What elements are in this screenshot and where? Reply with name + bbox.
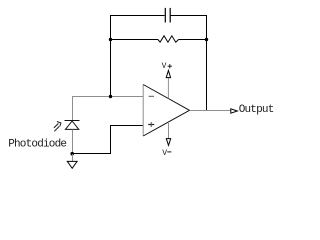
wire: resistor branch right lead (179, 39, 207, 41)
wire: photodiode anode drop (gray) (72, 129, 74, 153)
photodiode D1 cathode bar (65, 120, 80, 122)
capacitor C1 right plate (169, 8, 171, 23)
junction dot: right feedback node (205, 38, 208, 41)
photodiode light arrow 2 (54, 126, 59, 131)
wire: left vertical feedback (110, 40, 112, 97)
capacitor C1 left plate (164, 8, 166, 23)
wire: top capacitor branch left segment (111, 16, 165, 40)
op-amp U1 top slant edge (143, 85, 189, 111)
wire: bottom run from anode to non-inverting branch (72, 126, 143, 154)
V+ arrow (166, 71, 170, 78)
wire: resistor branch left lead (111, 39, 158, 41)
op-amp U1 left edge (gray) (142, 85, 144, 137)
op-amp minus sign (149, 95, 154, 97)
svg-text:V: V (162, 62, 167, 71)
op-amp U1 bottom slant edge (143, 110, 189, 136)
svg-text:Output: Output (239, 104, 274, 116)
photodiode light arrow 1 (54, 122, 61, 128)
svg-text:Photodiode: Photodiode (8, 138, 66, 150)
junction dot: left feedback node (109, 38, 112, 41)
junction dot: inverting node (109, 95, 112, 98)
wire: ground stub (gray) (72, 154, 74, 162)
junction dot: anode/ground node (70, 152, 74, 156)
V- arrow (166, 139, 170, 146)
V- supply lead (gray) (168, 122, 170, 139)
wire: right vertical feedback to output node (206, 40, 208, 111)
wire: inverting input (gray) (72, 96, 143, 98)
ground symbol (67, 161, 77, 168)
op-amp plus sign (148, 122, 154, 127)
wire: output (gray) (190, 110, 231, 112)
wire: photodiode cathode riser (gray) (72, 97, 74, 121)
output arrow (231, 109, 238, 113)
svg-text:V: V (162, 149, 167, 158)
photodiode D1 triangle (65, 121, 78, 129)
V+ supply lead (gray) (167, 78, 169, 99)
wire: top capacitor branch right segment (171, 16, 207, 40)
resistor R1 zigzag (158, 36, 179, 42)
